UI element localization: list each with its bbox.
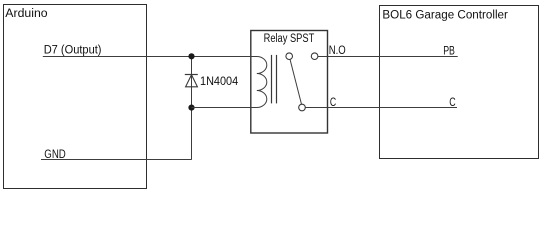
wire GND horizontal — [41, 159, 192, 161]
wire coil return (junction to relay) — [192, 107, 251, 109]
svg-text:C: C — [330, 97, 336, 109]
svg-text:Relay SPST: Relay SPST — [264, 33, 315, 45]
svg-text:Arduino: Arduino — [5, 8, 47, 20]
node junction at D7 — [188, 53, 194, 59]
block Arduino — [4, 5, 147, 189]
svg-text:BOL6 Garage Controller: BOL6 Garage Controller — [382, 10, 508, 22]
svg-text:1N4004: 1N4004 — [200, 76, 239, 88]
switch lever — [290, 59, 302, 104]
relay core line 1 — [271, 55, 273, 104]
svg-text:GND: GND — [44, 149, 66, 161]
relay core line 2 — [276, 55, 278, 104]
wire D7 output — [43, 56, 251, 58]
node junction at coil return — [188, 105, 194, 111]
relay U1 box — [251, 31, 328, 134]
relay coil L1 — [251, 57, 267, 108]
svg-text:C: C — [449, 97, 455, 109]
wire C to C — [305, 107, 457, 109]
switch N.O contact (top right circle) — [311, 53, 318, 60]
switch common contact (bottom circle) — [299, 104, 306, 111]
wire diode branch vertical (D7 node down to GND wire) — [191, 57, 193, 160]
svg-text:D7 (Output): D7 (Output) — [44, 45, 102, 57]
switch armature contact (top left circle) — [286, 53, 293, 60]
block BOL6 Garage Controller — [380, 6, 539, 159]
svg-text:N.O: N.O — [329, 45, 346, 57]
svg-text:PB: PB — [443, 46, 455, 58]
wire N.O to PB — [318, 56, 458, 58]
diode D1 cathode bar — [185, 74, 198, 76]
diode D1 triangle — [186, 75, 198, 87]
